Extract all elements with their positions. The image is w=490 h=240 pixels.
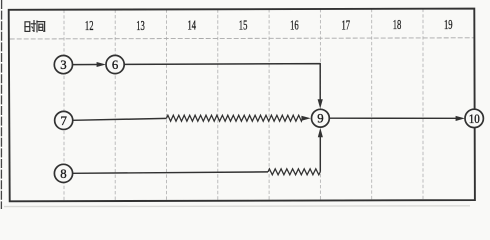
svg-text:14: 14 [188, 18, 197, 33]
svg-text:15: 15 [239, 18, 248, 33]
svg-text:7: 7 [60, 114, 67, 128]
svg-text:6: 6 [112, 58, 119, 72]
svg-text:17: 17 [342, 17, 351, 32]
svg-text:8: 8 [60, 167, 66, 181]
svg-text:10: 10 [469, 112, 480, 126]
svg-text:19: 19 [444, 17, 453, 32]
svg-text:16: 16 [290, 18, 299, 33]
svg-text:13: 13 [136, 18, 145, 33]
svg-text:12: 12 [85, 18, 94, 33]
svg-text:9: 9 [317, 112, 323, 126]
svg-text:18: 18 [393, 17, 402, 32]
svg-text:3: 3 [60, 58, 66, 72]
